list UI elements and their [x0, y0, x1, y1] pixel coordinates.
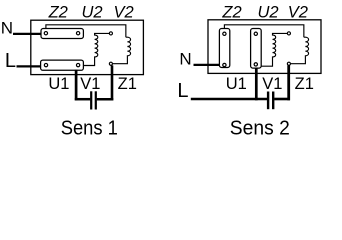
svg-text:V1: V1	[262, 75, 282, 93]
svg-text:U2: U2	[257, 4, 278, 22]
svg-text:V2: V2	[114, 4, 134, 22]
svg-text:V1: V1	[80, 75, 100, 93]
svg-text:Sens 2: Sens 2	[230, 117, 290, 139]
svg-text:U2: U2	[81, 4, 102, 22]
svg-text:U1: U1	[226, 75, 247, 93]
svg-text:Z1: Z1	[118, 75, 137, 93]
svg-text:L: L	[177, 80, 188, 102]
svg-text:L: L	[5, 50, 16, 72]
svg-text:N: N	[1, 18, 13, 37]
svg-text:Z1: Z1	[295, 75, 314, 93]
svg-text:U1: U1	[48, 75, 69, 93]
svg-text:Z2: Z2	[48, 4, 68, 22]
svg-text:N: N	[179, 50, 191, 69]
svg-text:V2: V2	[288, 4, 308, 22]
svg-text:Z2: Z2	[221, 4, 241, 22]
svg-text:Sens 1: Sens 1	[61, 117, 118, 139]
